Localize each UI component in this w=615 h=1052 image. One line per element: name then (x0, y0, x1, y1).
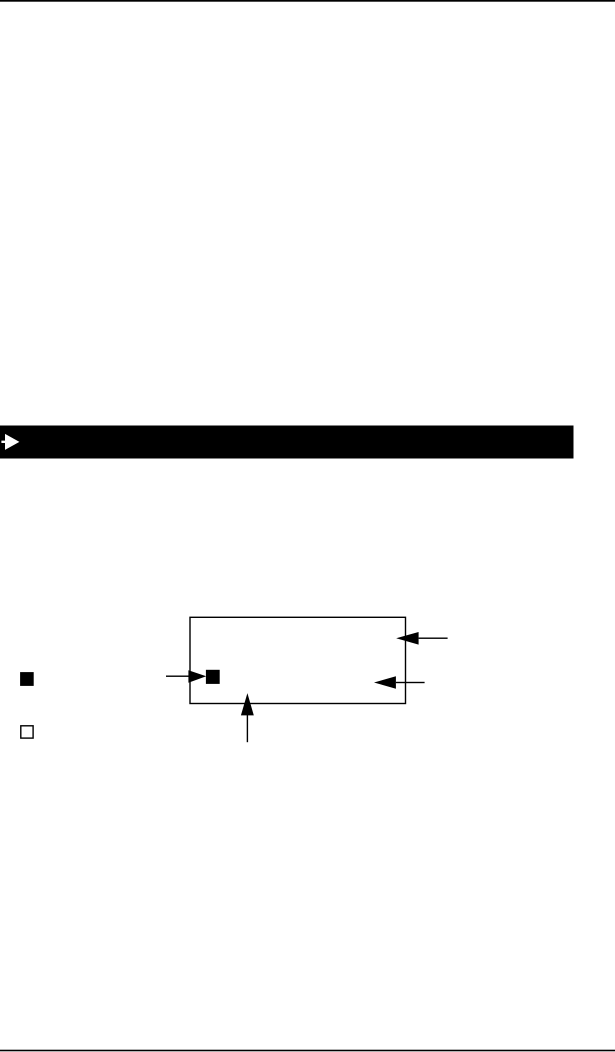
right-pointing arrow into node square : tail wire (166, 676, 189, 677)
figure rectangle (190, 617, 406, 703)
header bar (0, 426, 574, 459)
bottom up-pointing arrow : head (241, 693, 254, 715)
legend filled square (20, 672, 34, 686)
legend open square (21, 726, 33, 738)
header arrow icon (white right-pointing arrow) (1, 434, 19, 450)
right-pointing arrow into node square : head (188, 670, 206, 682)
lower-right left-pointing arrow : tail wire (396, 682, 425, 683)
upper-right left-pointing arrow : head (396, 632, 418, 645)
lower-right left-pointing arrow : head (374, 676, 396, 689)
bottom rule (0, 1050, 615, 1052)
bottom up-pointing arrow : tail wire (247, 715, 248, 742)
filled node square inside left edge (206, 670, 220, 684)
upper-right left-pointing arrow : tail wire (419, 638, 448, 639)
top rule (0, 0, 615, 2)
